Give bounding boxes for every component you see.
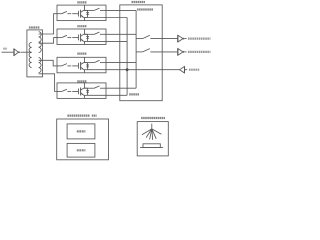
output module cabinet enclosure (120, 5, 162, 101)
power unit U4 label (77, 80, 86, 82)
wire U3 top output (106, 62, 136, 64)
power unit U3 (57, 57, 106, 73)
hoist cage box (143, 144, 160, 148)
wire secondary 1b to power unit 2 (39, 38, 57, 44)
power unit U2 label (77, 25, 86, 27)
node junction dot on bus B (126, 68, 129, 71)
wire secondary 1a to power unit 1 (39, 14, 57, 34)
hoist rope ray 3 (150, 129, 152, 140)
reversing contactor label text (137, 8, 153, 10)
wire supply input (2, 51, 14, 53)
power section label text (77, 130, 86, 132)
power unit U1 (57, 5, 106, 21)
wire U3 bottom output (106, 69, 127, 71)
cabinet power section box (67, 124, 95, 139)
contactor K2 blade (143, 49, 150, 52)
hoist rope ray 4 (151, 129, 154, 140)
drive output arrow 2 (178, 48, 187, 55)
wire to transformer T1 (21, 51, 27, 53)
node label: feedback signal text (189, 69, 200, 71)
wire secondary 2b to power unit 4 (39, 74, 57, 92)
PLC controller label text (129, 93, 139, 95)
hoist figure title text (141, 117, 165, 119)
hoist figure enclosure (137, 122, 168, 156)
wire U2 bottom output (106, 40, 127, 42)
cabinet outer enclosure (57, 119, 109, 160)
cabinet structure figure (57, 119, 109, 160)
hoist rope ray 2 (146, 129, 152, 138)
power unit U2 (57, 29, 106, 45)
wire U4 bottom output (106, 94, 127, 96)
wire secondary 2a to power unit 3 (39, 60, 57, 66)
wire feedback (127, 69, 180, 71)
transformer T1 enclosure (27, 30, 43, 77)
wire U1 top output (106, 9, 136, 11)
hoist base line (140, 147, 163, 149)
drive output arrow 1 (178, 35, 187, 42)
wire U2 top output (106, 33, 136, 35)
wire contactor feed 2 (136, 51, 143, 53)
power unit U1 label (77, 1, 86, 3)
hoist rope ray 6 (152, 129, 162, 134)
node label: supply text (3, 48, 7, 50)
transformer T1 label (29, 26, 40, 28)
wire primary lead (27, 51, 32, 53)
bus A positive vertical (135, 10, 137, 88)
node label: drive output 2 text (188, 51, 211, 53)
input flow arrow symbol (14, 49, 21, 56)
hoist structure figure (137, 122, 168, 156)
control section label text (77, 149, 86, 151)
node label: drive output 1 text (188, 37, 211, 39)
wire contactor feed 1 (136, 38, 143, 40)
power unit U4 (57, 83, 106, 99)
power unit U3 label (77, 52, 86, 54)
cabinet figure title text (67, 114, 90, 116)
feedback arrow left-pointing (180, 67, 188, 73)
hoist rope ray 1 (142, 129, 152, 135)
wire drive output 1 (150, 38, 177, 40)
wire U4 top output (106, 87, 136, 89)
transformer T1 primary winding (29, 42, 32, 67)
wire U1 bottom output (106, 17, 127, 19)
cabinet control section box (67, 143, 95, 157)
output cabinet title text (132, 1, 146, 3)
hoist suspension stem (151, 124, 153, 129)
transformer T1 secondary winding 2 (39, 58, 42, 73)
transformer T1 secondary winding 1 (39, 32, 42, 53)
wire drive output 2 (150, 51, 177, 53)
bus B return vertical (126, 18, 128, 96)
contactor K1 blade (143, 35, 150, 38)
hoist rope ray 5 (152, 129, 156, 139)
